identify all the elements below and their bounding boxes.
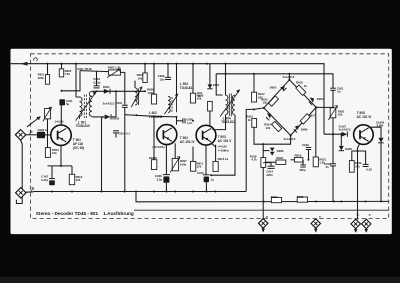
T903 emitter lead [205, 145, 207, 175]
demod output column [262, 144, 264, 218]
diode D905 [270, 85, 287, 91]
emitter node dots [60, 165, 62, 167]
svg-text:2xAA113: 2xAA113 [339, 128, 351, 132]
C912 lower lead [205, 182, 207, 191]
wire C911 to T901 collector [60, 105, 62, 125]
resistor R904 [45, 148, 59, 158]
R910 leads [71, 166, 73, 174]
R933 leads [352, 151, 358, 161]
connector g diamond [259, 214, 269, 228]
resistor R910 [69, 174, 82, 184]
T902 emitter lead [165, 145, 167, 175]
output connector J2 [16, 188, 26, 198]
R905 leads [144, 64, 146, 73]
svg-text:(≈0,92): (≈0,92) [55, 120, 64, 124]
svg-text:C912: C912 [197, 171, 204, 175]
svg-text:12n: 12n [159, 77, 164, 81]
output column dot [262, 143, 264, 145]
svg-text:22k: 22k [355, 164, 360, 168]
svg-text:R917: R917 [309, 113, 316, 117]
svg-text:10k: 10k [338, 113, 343, 117]
transistor T901 circle [51, 125, 71, 145]
L904 secondary bottom wire [211, 115, 235, 175]
svg-text:12k: 12k [262, 101, 267, 105]
capacitor C910 [113, 131, 130, 136]
R919 wires [291, 159, 295, 161]
C903 junction dot [96, 90, 98, 92]
L901 feed wire [75, 64, 77, 97]
bridge right vertex wire [316, 106, 333, 108]
lower wire dots [263, 200, 383, 202]
C916 column [302, 143, 311, 150]
svg-text:2xAA113: 2xAA113 [283, 75, 295, 79]
bridge top lead [288, 74, 290, 80]
resistor R912 [246, 114, 256, 127]
L902 leads [134, 81, 136, 88]
R920 wires [266, 161, 276, 163]
resistor R909a [197, 91, 212, 111]
svg-text:R903 1,2k: R903 1,2k [108, 66, 121, 70]
R909 node dot [253, 108, 255, 110]
svg-text:220n: 220n [266, 173, 273, 177]
trimmer R907 [170, 157, 187, 173]
title separator line [134, 209, 389, 211]
svg-text:C916: C916 [302, 143, 309, 147]
ground rail dots [51, 190, 217, 192]
R902 column wire [61, 64, 63, 69]
dashed sheet border [31, 54, 389, 219]
resistor R931 [313, 157, 326, 167]
resistor R908 [190, 93, 203, 103]
svg-text:220k: 220k [38, 76, 45, 80]
capacitor C920 [363, 164, 373, 171]
T901 symbol [58, 128, 67, 142]
svg-text:2xAA113: 2xAA113 [284, 137, 296, 141]
second feed drop to L904 primary [216, 74, 222, 95]
R909a lower lead [209, 111, 211, 126]
C907 leads [51, 166, 53, 179]
lower distribution wire right part [264, 200, 389, 202]
svg-text:AC 151 IV: AC 151 IV [180, 140, 196, 144]
capacitor C907 [41, 174, 55, 185]
capacitor C919 [324, 162, 336, 169]
resistor R913 [213, 157, 229, 171]
L903 tuning arrow [164, 93, 178, 114]
D926 top dot [340, 133, 342, 135]
svg-text:5n: 5n [337, 90, 341, 94]
detector drop wire [101, 118, 103, 192]
inline resistor R922 [271, 195, 282, 203]
svg-text:1k: 1k [198, 94, 202, 98]
connector a2 arrow [364, 229, 368, 233]
svg-text:0,22: 0,22 [366, 168, 372, 172]
svg-text:D904: D904 [317, 97, 324, 101]
bottom scan shadow band [0, 277, 400, 283]
svg-text:100k: 100k [180, 162, 187, 166]
svg-text:100: 100 [76, 178, 81, 182]
R911 leads [192, 147, 194, 162]
C903 leads [96, 71, 98, 86]
resistor R914 [264, 121, 281, 131]
diode D903 [266, 113, 271, 120]
R901 column wire [47, 64, 49, 75]
capacitor C905 [183, 118, 194, 125]
capacitor C906 [158, 74, 171, 81]
svg-text:TD45-810: TD45-810 [76, 124, 90, 128]
D907 column [209, 64, 211, 85]
input arrowhead on rail [21, 62, 28, 66]
connector e arrow [314, 228, 318, 232]
diode D927 [339, 124, 351, 136]
svg-text:1,2k: 1,2k [319, 161, 325, 165]
resistor R915 [261, 96, 278, 106]
wire C902 to T901 base [45, 134, 51, 136]
diode output column [112, 91, 116, 117]
connector g arrow [261, 228, 265, 232]
connector e diamond [311, 215, 322, 229]
svg-text:D901: D901 [103, 85, 110, 89]
resistor R902 [59, 69, 71, 77]
white schematic page [11, 49, 392, 234]
transistor T903 circle [196, 125, 216, 145]
wire J1 to C902 [26, 134, 37, 136]
junction dot R902 tap [60, 90, 62, 92]
svg-text:3,3μ: 3,3μ [157, 178, 163, 182]
top supply rail [11, 64, 324, 135]
svg-text:R913 1k: R913 1k [218, 157, 229, 161]
connector b2 arrow [354, 229, 358, 233]
base wire crossing dot [332, 133, 334, 135]
capacitor C915 [299, 165, 306, 172]
svg-text:f=19kHz: f=19kHz [218, 148, 229, 152]
svg-text:1k: 1k [304, 84, 308, 88]
svg-text:0,47μ: 0,47μ [41, 178, 48, 182]
svg-text:R919: R919 [295, 154, 302, 158]
svg-text:g: g [266, 214, 268, 218]
svg-text:AC 151 VI: AC 151 VI [357, 115, 372, 119]
R907 leads [174, 143, 176, 158]
ring demodulator bridge outline [264, 80, 316, 136]
svg-text:5μ: 5μ [66, 102, 70, 106]
resistor R905 [137, 73, 148, 83]
vertex wire dot [332, 106, 334, 108]
capacitor C912 electrolytic [197, 171, 214, 182]
C904 lower lead [124, 107, 126, 191]
trimmer coil L902 [135, 88, 139, 105]
T903 symbol [203, 128, 212, 142]
connector a2 diamond [362, 213, 373, 229]
svg-text:D905: D905 [270, 85, 277, 89]
resistor R919 [294, 154, 302, 162]
J2 wire to rail [26, 191, 34, 193]
L903 leads [176, 64, 178, 97]
L904 tuning arrow [220, 89, 240, 116]
input connector J1 [15, 130, 25, 140]
T902 symbol [163, 128, 172, 142]
svg-text:R923: R923 [297, 195, 304, 199]
L904 secondary bottom joint dot [210, 174, 212, 176]
D926 leads [340, 134, 342, 146]
resistor R906b [149, 156, 158, 170]
L902 tuning arrow [131, 86, 142, 107]
R912 lower lead [254, 127, 263, 144]
J1 ground tail wire [16, 140, 22, 204]
svg-text:TD45-811: TD45-811 [149, 115, 163, 119]
rail junction dots [46, 63, 226, 65]
svg-text:100k: 100k [148, 91, 155, 95]
feed line dots [224, 73, 290, 75]
resistor R917 [300, 113, 316, 124]
border pass curl b [31, 189, 34, 191]
emitter node dot [357, 150, 359, 152]
svg-text:D906: D906 [301, 128, 308, 132]
svg-text:4,7k: 4,7k [251, 158, 257, 162]
border pass curl a [30, 132, 33, 135]
R908 leads [192, 64, 194, 93]
C919 lower lead [332, 166, 334, 202]
svg-text:1,2n: 1,2n [187, 121, 193, 125]
D928 lower lead [380, 143, 382, 202]
T905 symbol [360, 128, 369, 142]
detector drop joint [102, 116, 105, 119]
node wire to bridge left vertex [254, 108, 264, 110]
C908 lower lead [165, 183, 167, 192]
C906 leads [167, 64, 169, 78]
R921 lower lead [332, 118, 334, 164]
bridge vertex dots [263, 79, 317, 137]
svg-text:1k: 1k [248, 118, 252, 122]
svg-text:1μ: 1μ [210, 178, 214, 182]
diode D928 [376, 120, 385, 142]
R909 leads [253, 74, 255, 92]
transistor T905 circle [354, 125, 374, 145]
diode column junction dot [115, 90, 117, 92]
capacitor C911 electrolytic body [59, 99, 65, 105]
inline resistor R923 [297, 195, 308, 202]
emitter node wire [48, 165, 73, 167]
transformer L901 [76, 91, 92, 119]
R906b leads [153, 116, 155, 159]
bridge bottom wire [263, 135, 290, 144]
potentiometer R921 [328, 106, 345, 120]
resistor R916 [296, 81, 307, 96]
resistor R901 [38, 73, 50, 85]
R905 bottom dot [144, 90, 146, 92]
capacitor C902 electrolytic body [37, 132, 45, 139]
T903 emitter bend [211, 143, 215, 147]
trimmer coil L903 [168, 96, 177, 112]
resistor R933 [349, 161, 362, 173]
diode D907 [207, 83, 220, 89]
resistor R906 [147, 88, 157, 104]
resistor R918 [250, 154, 266, 167]
second feed line upper [80, 71, 109, 72]
svg-text:560p: 560p [299, 168, 306, 172]
second feed riser left [62, 71, 81, 91]
capacitor C903 [93, 77, 100, 88]
input signal arrow [27, 116, 41, 127]
svg-text:10k: 10k [52, 151, 57, 155]
capacitor C904 [115, 101, 127, 107]
C914 tie [263, 163, 271, 167]
svg-text:R922: R922 [271, 195, 278, 199]
T905 collector top wire [370, 127, 381, 137]
diode D926 [339, 146, 353, 151]
svg-text:10k: 10k [138, 76, 143, 80]
L904 primary column [225, 64, 227, 95]
svg-text:(OC 45): (OC 45) [73, 146, 84, 150]
svg-text:0,9W: 0,9W [377, 124, 384, 128]
capacitor C908 electrolytic [155, 174, 170, 183]
C921 lower lead [332, 90, 334, 107]
svg-text:C904: C904 [115, 101, 122, 105]
T901 emitter wire [60, 145, 62, 166]
svg-text:TD45-812: TD45-812 [221, 120, 235, 124]
R903 output wire [121, 72, 125, 104]
svg-text:2xAA113: 2xAA113 [103, 102, 115, 106]
C915 leads [302, 160, 304, 165]
C905 leads [177, 120, 183, 122]
second feed line right section [216, 74, 333, 88]
diode D906 [294, 125, 308, 132]
base wire dots [136, 114, 178, 118]
T905 base wire with D927 [324, 133, 341, 135]
L904 primary bottom stub [212, 115, 225, 130]
diode D904 [309, 97, 324, 105]
connector b2 diamond [351, 212, 360, 228]
svg-text:AC 151 V: AC 151 V [218, 139, 233, 143]
C916 leads [308, 150, 310, 160]
trimmer to base node wire [48, 119, 51, 135]
T902 base lead [176, 117, 178, 125]
secondary bottom wire to D902 [92, 116, 104, 118]
diode D902 [105, 114, 120, 120]
C920 leads [358, 151, 366, 164]
R906 leads [153, 64, 155, 94]
svg-text:R912k: R912k [149, 156, 158, 160]
resistor R911 [190, 161, 203, 171]
resistor R909 [252, 92, 266, 102]
lower distribution wire [136, 192, 264, 202]
C910 lower lead [115, 133, 117, 138]
border corner curl mark [33, 58, 37, 61]
svg-text:Stereo - Decoder TD45 - 801: Stereo - Decoder TD45 - 801 1.Ausführung [36, 211, 134, 216]
svg-text:7,5k: 7,5k [65, 72, 71, 76]
oscillator base wire [125, 115, 177, 117]
C916 node dot [308, 159, 310, 161]
trimmer resistor R903 [107, 66, 121, 78]
R904 leads [47, 135, 49, 148]
zener stack tie [263, 150, 269, 152]
bottom ground rail [34, 191, 247, 193]
C905 junction dot [192, 120, 194, 122]
svg-text:12k: 12k [197, 165, 202, 169]
svg-text:D907: D907 [213, 83, 220, 87]
L901 tuning arrow [76, 91, 97, 120]
R913 leads [215, 145, 217, 162]
capacitor C914 [266, 166, 274, 177]
diode D901 [103, 85, 110, 94]
secondary top wire to D901 [92, 90, 145, 92]
svg-text:5n: 5n [326, 165, 330, 169]
zener stack D908 [270, 148, 284, 156]
capacitor C921 [330, 86, 344, 93]
svg-text:D908: D908 [277, 149, 284, 153]
transistor T902 circle [157, 125, 177, 145]
svg-text:TD45-811: TD45-811 [180, 86, 194, 90]
T905 emitter column [358, 144, 360, 220]
transformer L904 [226, 93, 236, 116]
svg-text:12k: 12k [266, 126, 271, 130]
svg-text:C902 1μ: C902 1μ [38, 128, 49, 132]
svg-text:C901 TD45•: C901 TD45• [77, 67, 92, 71]
node wire to ground rail column [246, 109, 254, 191]
trimmer R990 [43, 107, 52, 122]
resistor R920 [276, 156, 286, 164]
svg-text:R916: R916 [296, 81, 303, 85]
R931 leads [315, 107, 317, 157]
svg-text:D926: D926 [345, 147, 352, 151]
svg-text:R920: R920 [276, 156, 283, 160]
